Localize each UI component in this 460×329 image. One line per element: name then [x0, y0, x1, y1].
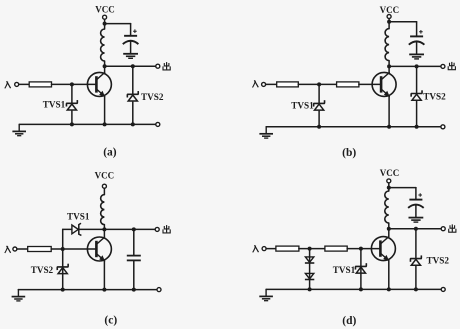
junction VCC node (a)	[103, 22, 107, 26]
wire inductor to collector node (c)	[103, 225, 105, 230]
input terminal (c)	[13, 247, 17, 251]
svg-text:TVS1: TVS1	[67, 211, 90, 221]
ground rail terminal (a)	[156, 122, 160, 126]
junction TVS2 ground (b)	[415, 125, 419, 129]
capacitor C4 polarized (d)	[409, 199, 422, 201]
TVS diode TVS1 (b)	[314, 100, 325, 106]
node 出 output label (d)	[451, 224, 453, 231]
output terminal (d)	[441, 227, 445, 231]
node 入 input label (c)	[5, 246, 8, 253]
VCC terminal (d)	[387, 179, 391, 183]
svg-text:TVS1: TVS1	[291, 101, 314, 111]
ground rail terminal (b)	[441, 125, 445, 129]
output terminal (a)	[156, 64, 160, 68]
input terminal (d)	[262, 247, 266, 251]
svg-text:TVS1: TVS1	[43, 99, 66, 109]
wire capacitor C3 top lead (c)	[133, 229, 135, 255]
ground symbol (b)	[265, 127, 267, 133]
TVS diode TVS2 (b)	[411, 90, 422, 96]
wire capacitor C1 bottom lead (a)	[130, 42, 132, 53]
node 入 input label (d)	[253, 246, 256, 253]
VCC terminal (c)	[102, 184, 106, 188]
capacitor C1 polarized (a)	[124, 35, 137, 37]
TVS diode TVS1 (d)	[355, 263, 366, 269]
wire TVS2 top lead (b)	[416, 66, 418, 93]
wire emitter to ground rail (c)	[103, 261, 105, 290]
junction TVS2 top node (a)	[131, 64, 135, 68]
junction collector node (d)	[387, 227, 391, 231]
wire input terminal to resistor R4 (c)	[17, 248, 28, 250]
node 出 output label (a)	[166, 62, 168, 69]
ground of capacitor C4 (d)	[409, 217, 424, 219]
junction TVS1 top node (a)	[70, 82, 74, 86]
svg-text:VCC: VCC	[380, 168, 400, 178]
wire TVS1 branch right segment (c)	[79, 228, 105, 230]
junction TVS1 ground (b)	[317, 125, 321, 129]
wire inductor to collector node (d)	[388, 223, 390, 229]
wire VCC to inductor (c)	[103, 188, 105, 194]
wire collector to node (a)	[104, 66, 106, 72]
junction TVS1 top node (b)	[317, 82, 321, 86]
wire VCC to inductor (d)	[388, 183, 390, 191]
junction TVS2 ground (c)	[61, 288, 65, 292]
resistor R3 (b)	[337, 82, 359, 87]
wire output line (c)	[104, 228, 155, 230]
wire resistor R3 to base (b)	[359, 83, 381, 85]
input terminal (b)	[262, 82, 266, 86]
wire VCC node to capacitor C2 (b)	[389, 21, 417, 23]
wire emitter to ground rail (b)	[388, 96, 390, 127]
diode D2 (d)	[305, 273, 313, 278]
wire TVS2 bottom lead (a)	[132, 102, 134, 124]
wire TVS1 top lead (b)	[318, 84, 320, 103]
diode D1 (d)	[305, 257, 313, 262]
inductor L3 (c)	[101, 195, 105, 225]
input terminal (a)	[15, 82, 19, 86]
resistor R2 (b)	[277, 82, 299, 87]
wire resistor R2 to resistor R3 (b)	[298, 83, 336, 85]
wire TVS2 top lead (a)	[132, 66, 134, 94]
wire capacitor C2 top lead (b)	[416, 22, 418, 37]
ground symbol (d)	[265, 289, 267, 295]
junction base node (c)	[61, 247, 65, 251]
node 入 input label (a)	[5, 82, 8, 89]
junction collector node (a)	[103, 64, 107, 68]
TVS diode TVS1 horizontal (c)	[72, 225, 78, 234]
wire emitter to ground rail (d)	[388, 260, 390, 289]
wire capacitor C3 bottom lead (c)	[133, 260, 135, 289]
junction capacitor ground (c)	[132, 288, 136, 292]
ground of capacitor C1 (a)	[123, 53, 138, 55]
node 出 output label (b)	[451, 62, 453, 69]
wire TVS1 top lead (a)	[71, 84, 73, 103]
resistor R1 (a)	[29, 82, 51, 87]
wire capacitor C2 bottom lead (b)	[416, 42, 418, 53]
VCC terminal (b)	[387, 15, 391, 19]
wire resistor R4 to base (c)	[51, 248, 96, 250]
wire inductor to collector node (a)	[104, 61, 106, 66]
svg-text:TVS2: TVS2	[423, 91, 446, 101]
junction collector node (c)	[102, 227, 106, 231]
wire VCC node to capacitor C4 (d)	[389, 187, 416, 189]
resistor R6 (d)	[325, 246, 347, 251]
ground of capacitor C2 (b)	[409, 53, 424, 55]
junction TVS2 ground (a)	[131, 122, 135, 126]
inductor L2 (b)	[385, 29, 389, 61]
TVS diode TVS2 (c)	[57, 264, 68, 270]
svg-text:TVS2: TVS2	[31, 265, 54, 275]
wire VCC to inductor (b)	[388, 19, 390, 29]
transistor Q1 (a)	[87, 72, 111, 96]
resistor R5 (d)	[276, 246, 299, 251]
junction capacitor top node (c)	[132, 227, 136, 231]
wire VCC to inductor (a)	[104, 19, 106, 29]
ground symbol (a)	[18, 124, 20, 130]
wire emitter to ground rail (a)	[104, 96, 106, 124]
capacitor C2 polarized (b)	[410, 35, 423, 37]
junction TVS2 top node (b)	[415, 64, 419, 68]
junction emitter ground (d)	[387, 287, 391, 291]
wire capacitor C4 bottom lead (d)	[415, 206, 417, 217]
TVS diode TVS2 (a)	[127, 91, 138, 97]
output terminal (c)	[155, 227, 159, 231]
wire output line (d)	[389, 228, 441, 230]
junction TVS2 ground (d)	[414, 287, 418, 291]
wire TVS1 bottom lead (b)	[318, 111, 320, 127]
svg-text:(a): (a)	[103, 146, 117, 158]
wire output line (a)	[105, 65, 156, 67]
junction TVS1 top node (d)	[359, 247, 363, 251]
wire TVS2 bottom lead (b)	[416, 101, 418, 127]
wire ground rail (c)	[18, 289, 157, 291]
ground rail terminal (c)	[157, 288, 161, 292]
inductor L4 (d)	[385, 191, 389, 223]
svg-text:VCC: VCC	[95, 5, 115, 15]
wire ground rail (d)	[266, 288, 441, 290]
TVS diode TVS2 (d)	[410, 255, 421, 261]
resistor R4 (c)	[28, 247, 52, 252]
svg-text:VCC: VCC	[380, 5, 400, 15]
junction VCC node (b)	[387, 20, 391, 24]
junction emitter ground (b)	[387, 125, 391, 129]
wire resistor to base (a)	[52, 83, 97, 85]
svg-text:TVS2: TVS2	[141, 92, 164, 102]
wire diode chain (d)	[309, 249, 311, 290]
wire input terminal to resistor R5 (d)	[266, 248, 276, 250]
wire ground rail (a)	[19, 123, 156, 125]
TVS diode TVS1 (a)	[66, 100, 77, 106]
capacitor C3 (c)	[127, 255, 141, 257]
junction collector node (b)	[387, 64, 391, 68]
wire TVS1 bottom lead (a)	[71, 111, 73, 124]
junction emitter ground (a)	[103, 122, 107, 126]
wire TVS2 bottom lead (d)	[415, 266, 417, 289]
wire output line (b)	[389, 65, 441, 67]
wire input left branch vertical (c)	[62, 229, 64, 289]
wire TVS1 leads (d)	[360, 249, 362, 290]
node 出 output label (c)	[166, 225, 168, 232]
wire TVS2 top lead (d)	[415, 229, 417, 259]
junction TVS1 ground (d)	[359, 287, 363, 291]
wire capacitor C1 top lead (a)	[130, 24, 132, 36]
svg-text:TVS1: TVS1	[333, 265, 356, 275]
wire inductor to collector node (b)	[388, 61, 390, 67]
output terminal (b)	[441, 64, 445, 68]
inductor L1 (a)	[101, 29, 105, 61]
transistor Q4 (d)	[371, 237, 395, 261]
wire capacitor C4 top lead (d)	[415, 188, 417, 200]
wire resistor R5 to resistor R6 (d)	[299, 248, 325, 250]
junction VCC node (d)	[387, 186, 391, 190]
VCC terminal (a)	[103, 15, 107, 19]
svg-text:(b): (b)	[342, 147, 356, 159]
wire VCC node to capacitor C1 (a)	[105, 23, 131, 25]
svg-text:TVS2: TVS2	[427, 256, 450, 266]
junction TVS1 ground (a)	[70, 122, 74, 126]
ground rail terminal (d)	[441, 287, 445, 291]
junction diode chain top node (d)	[308, 247, 312, 251]
wire input terminal to resistor (a)	[19, 83, 30, 85]
wire ground rail (b)	[266, 126, 441, 128]
ground symbol (c)	[17, 290, 19, 296]
node 入 input label (b)	[253, 81, 256, 88]
wire collector to node (b)	[388, 66, 390, 72]
wire input terminal to resistor R2 (b)	[266, 83, 277, 85]
wire TVS1 branch left segment (c)	[63, 228, 72, 230]
junction TVS2 top node (d)	[414, 227, 418, 231]
wire collector to node (d)	[388, 229, 390, 237]
junction diode chain ground (d)	[308, 287, 312, 291]
wire collector to node (c)	[103, 229, 105, 237]
transistor Q2 (b)	[372, 72, 396, 96]
svg-text:(c): (c)	[104, 315, 117, 327]
junction emitter ground (c)	[102, 288, 106, 292]
svg-text:VCC: VCC	[95, 171, 115, 181]
transistor Q3 (c)	[87, 237, 111, 261]
svg-text:(d): (d)	[342, 315, 356, 327]
wire resistor R6 to base (d)	[347, 248, 380, 250]
